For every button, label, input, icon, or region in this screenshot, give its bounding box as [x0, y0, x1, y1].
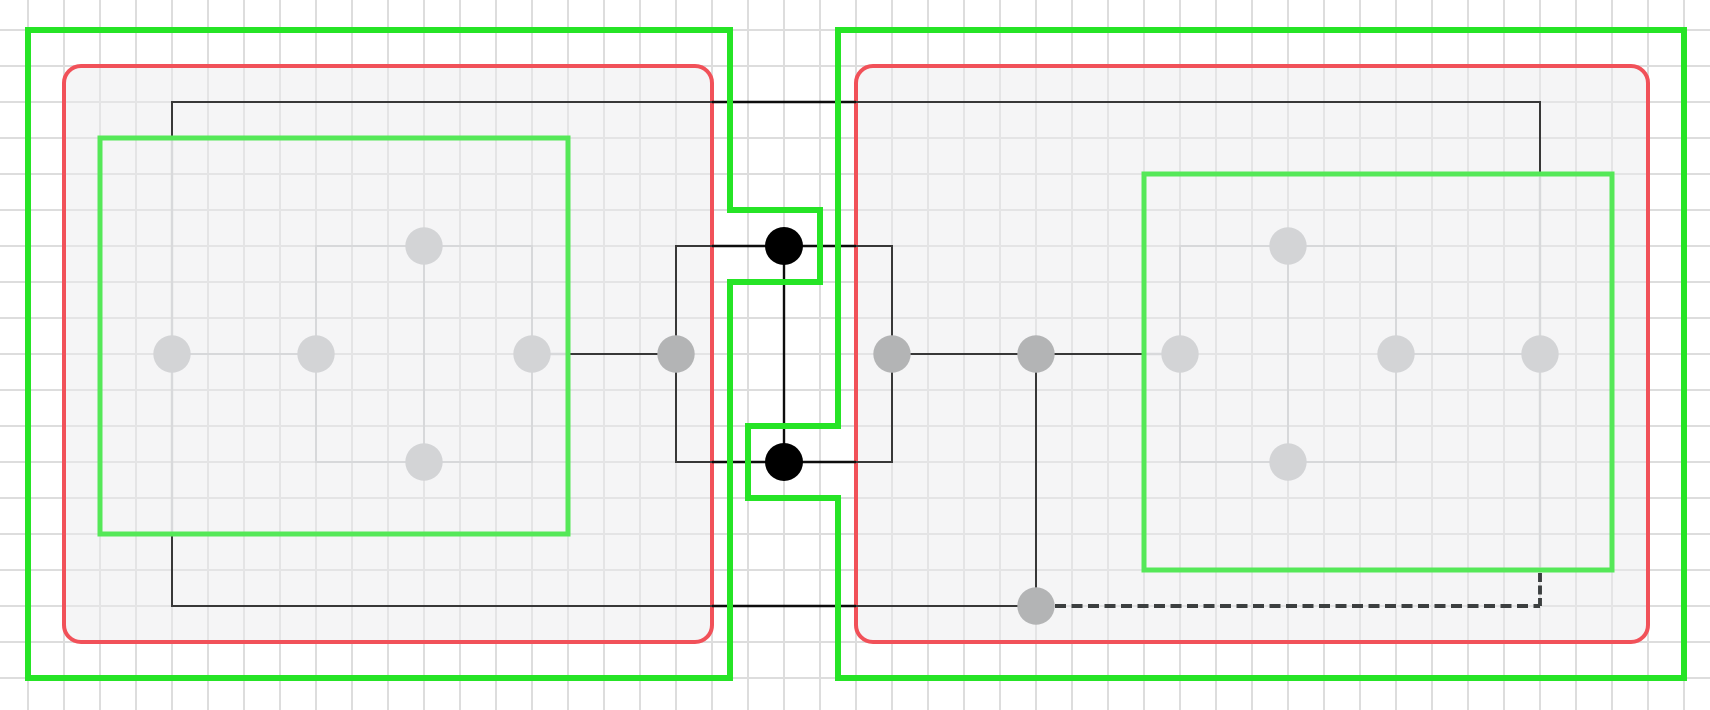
edge: connector rect top black segment in gap — [712, 245, 856, 247]
edge: vertical between black nodes — [783, 246, 785, 462]
edge: connector rect bottom black segment in gap — [712, 461, 856, 463]
edge: left green box east node to connector west node — [568, 353, 676, 355]
group border: left outer green polygon with notch — [28, 30, 820, 678]
node: right box east node — [1521, 335, 1558, 372]
edge: top routed edge black segment in gap — [712, 101, 856, 103]
edge: middle junction node down to bottom port node — [1035, 354, 1037, 606]
node: bottom black node — [765, 443, 803, 481]
edge: dashed folded edge vertical stub — [1538, 573, 1542, 606]
node: left box west node — [153, 335, 190, 372]
edge group: right inner light-gray edges — [1180, 246, 1540, 462]
node: connector west port node — [657, 335, 694, 372]
edge: bottom routed edge (left inner node to bottom port node) — [172, 533, 1036, 606]
node: right box top node — [1269, 227, 1306, 264]
group border: right inner green box — [1144, 174, 1612, 570]
node: middle connector group rectangle — [676, 246, 892, 462]
group border: left inner green box — [100, 138, 568, 534]
edge: top routed edge left node to right node (visible parts) — [172, 102, 1540, 176]
node: middle junction node — [1017, 335, 1054, 372]
edge: bottom routed edge black segment in gap — [712, 605, 856, 607]
node: right box west node — [1161, 335, 1198, 372]
node: left box east node — [513, 335, 550, 372]
edge: dashed folded edge horizontal — [1055, 604, 1540, 608]
edge: middle junction node into right green box — [1036, 353, 1146, 355]
group border: right red group — [856, 66, 1648, 642]
node: right box bottom node — [1269, 443, 1306, 480]
group fill: left red group — [64, 66, 712, 642]
edge: dimmed part inside left green box — [532, 353, 568, 355]
group border: left red group — [64, 66, 712, 642]
edge: dimmed part inside right green box — [1146, 353, 1180, 355]
node: top black node — [765, 227, 803, 265]
group border: right outer green polygon with notch — [748, 30, 1684, 678]
node: connector east port node — [873, 335, 910, 372]
edge group: left inner light-gray edges — [172, 246, 532, 462]
node: left box bottom node — [405, 443, 442, 480]
group fill: right red group — [856, 66, 1648, 642]
node: bottom port node — [1017, 587, 1054, 624]
edge: vertical between black nodes (black overlay) — [783, 246, 785, 462]
edge: connector east node to middle junction node — [892, 353, 1036, 355]
node: left box top node — [405, 227, 442, 264]
node: right box mid node — [1377, 335, 1414, 372]
edge: top routed edge dimmed under left green group — [171, 140, 173, 532]
node: left box mid node — [297, 335, 334, 372]
edge: top routed edge dimmed under right green group — [1539, 177, 1541, 567]
